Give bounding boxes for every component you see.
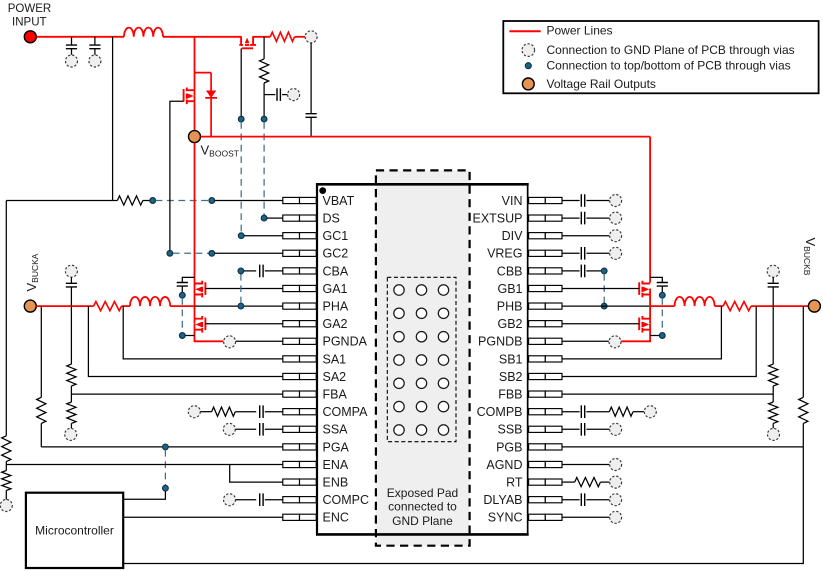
dashed layer-change CBB to PHB — [603, 274, 605, 303]
wire: top rail down at x=112.6 to VBAT branch — [112, 37, 114, 201]
capacitor C-SSB — [581, 423, 584, 436]
wire: divider to GND via — [70, 423, 72, 428]
wire: red vertical GA1 to phase row — [194, 289, 196, 324]
power input node — [24, 31, 36, 43]
capacitor C-OUTB vertical — [772, 277, 774, 283]
svg-text:SA1: SA1 — [323, 352, 347, 366]
svg-text:PHB: PHB — [497, 300, 523, 314]
svg-text:SB1: SB1 — [499, 352, 523, 366]
transistor Q-GA2 low side — [195, 316, 206, 333]
capacitor C-COMPC — [260, 493, 263, 506]
wire: red vertical boost FET to VBOOST node — [194, 95, 196, 130]
svg-text:EXTSUP: EXTSUP — [472, 212, 522, 226]
via dot PGA lower — [163, 485, 169, 491]
wire: buck B resistor to output node — [751, 305, 808, 307]
wire: DLYAB pad to cap — [562, 499, 580, 501]
wire: SSA cap to pad — [265, 428, 283, 430]
svg-text:Voltage Rail Outputs: Voltage Rail Outputs — [547, 77, 656, 91]
via dot CBA — [238, 268, 244, 274]
wire: via to microcontroller — [123, 491, 165, 499]
svg-text:ENB: ENB — [323, 476, 349, 490]
resistor R-FBB2 lower divider — [769, 402, 778, 423]
resistor R-EN1 far-left upper — [2, 436, 11, 462]
svg-text:GA1: GA1 — [323, 282, 348, 296]
resistor R-VBAT series — [113, 200, 118, 202]
wire: RT resistor to via — [600, 481, 609, 483]
microcontroller box — [26, 493, 123, 568]
inductor L-IN on top rail — [124, 28, 163, 37]
legend GND via symbol — [522, 44, 535, 57]
IC body U1 — [317, 184, 528, 534]
wire: GA2 gate to pad — [205, 323, 282, 325]
IC pin pads right bank — [529, 197, 562, 520]
wire: PGB pull-up column — [802, 306, 804, 397]
dashed layer-change wire GC1 column — [240, 122, 242, 233]
dashed layer-change wire on VBAT row — [156, 200, 209, 202]
svg-text:GB1: GB1 — [497, 282, 522, 296]
wire: bootstrap cap B to via dot — [661, 286, 663, 292]
diode D1 boost — [205, 73, 217, 137]
resistor R-COMPA — [212, 407, 236, 416]
via dot bootstrap B top — [659, 292, 665, 298]
GND via AGND — [610, 459, 622, 471]
capacitor C-BOOST vertical — [306, 114, 317, 118]
wire: VIN pad to cap — [562, 200, 580, 202]
wire: SB2 column — [562, 306, 756, 376]
exposed pad dashed region — [376, 170, 470, 545]
wire: DLYAB cap to via — [586, 499, 609, 501]
VBUCKA output node — [24, 300, 36, 312]
GND via EXTSUP — [610, 212, 622, 224]
exposed pad inner via field border — [387, 277, 456, 441]
wire: GB2 gate to pad — [562, 323, 639, 325]
via dot GC1 top — [238, 116, 244, 122]
wire: SYNC pad to via — [562, 516, 609, 518]
wire: VREG cap to via — [586, 252, 609, 254]
resistor R-FBB1 upper divider — [769, 364, 778, 386]
svg-text:VIN: VIN — [502, 194, 523, 208]
wire: phase node to PHA pad — [195, 305, 283, 307]
svg-text:PGB: PGB — [496, 440, 522, 454]
svg-text:ENC: ENC — [323, 511, 349, 525]
legend text lines — [547, 24, 795, 92]
wire: PGNDA via to pad — [236, 340, 283, 342]
svg-text:VBAT: VBAT — [323, 194, 355, 208]
wire: VBOOST rail to right side — [201, 136, 651, 138]
wire: COMPC via to cap — [236, 499, 257, 501]
wire: SSB pad to cap — [562, 428, 580, 430]
GND via below CIN2 — [89, 55, 101, 67]
wire: boost cap to VBOOST rail — [310, 117, 312, 136]
resistor R-RT — [575, 478, 601, 487]
wire: AGND pad to via — [562, 464, 609, 466]
wire: SSB cap to via — [586, 428, 609, 430]
wire: COMPB resistor to via — [633, 411, 644, 413]
dashed layer-change bootstrap A — [181, 298, 183, 333]
svg-text:GC1: GC1 — [323, 229, 349, 243]
wire: CBA cap to pad — [265, 270, 283, 272]
wire: CBA via to cap — [244, 270, 256, 272]
legend box — [503, 21, 818, 93]
wire: far-left column down to ENA divider — [5, 201, 7, 436]
wire: FBB divider column below rail — [772, 306, 774, 364]
capacitor C-DLYAB — [581, 493, 584, 506]
svg-text:CBB: CBB — [497, 264, 523, 278]
wire: via to DS pad — [267, 217, 283, 219]
wire: PGB row to pad — [562, 446, 803, 448]
wire: ENC row from microcontroller to pad — [123, 516, 283, 518]
via dot bootstrap A top — [179, 292, 185, 298]
resistor R-FBA2 lower divider — [67, 402, 76, 423]
svg-text:VBUCKA: VBUCKA — [24, 253, 40, 291]
transistor Q-GB2 low side — [639, 316, 650, 333]
wire: top power rail from input node to inductor — [36, 36, 124, 38]
wire: COMPA resistor to cap — [235, 411, 256, 413]
wire: COMPC cap to pad — [265, 499, 283, 501]
via dot CBB — [601, 268, 607, 274]
GND via DLYAB — [610, 494, 622, 506]
wire: top rail down at x=264.1 to DS resistor — [263, 37, 265, 59]
wire: bootstrap cap B tap from FET drain — [650, 277, 662, 282]
svg-text:SA2: SA2 — [323, 370, 347, 384]
wire: PGA row to pad — [41, 446, 282, 448]
transistor Q-BOOST — [184, 88, 195, 105]
svg-text:RT: RT — [506, 476, 523, 490]
GND via at end of top rail — [305, 31, 317, 43]
GND via DIV — [610, 230, 622, 242]
svg-text:FBA: FBA — [323, 388, 348, 402]
wire: red vertical into boost FET — [194, 73, 196, 96]
wire: DS resistor to cap junction and via dot — [263, 83, 265, 116]
resistor R-LB in buck B output — [723, 302, 751, 311]
wire: top rail resistor to GND via — [295, 36, 306, 38]
wire: GB1 gate to pad — [562, 288, 639, 290]
svg-text:COMPC: COMPC — [323, 493, 370, 507]
svg-text:PGNDA: PGNDA — [323, 335, 368, 349]
svg-text:ENA: ENA — [323, 458, 349, 472]
dashed layer-change CBA to PHA — [240, 274, 242, 303]
svg-text:Microcontroller: Microcontroller — [35, 524, 114, 538]
wire: GND via to boost bypass cap — [310, 43, 312, 114]
inductor L-B buck B — [675, 297, 715, 306]
legend power line sample — [509, 30, 540, 32]
transistor Q-IN pass FET on top rail — [239, 37, 256, 49]
wire: top rail FET to resistor — [252, 36, 270, 38]
dashed layer-change bootstrap B — [661, 298, 663, 333]
wire: FBB divider to GND via — [772, 423, 774, 428]
svg-text:CBA: CBA — [323, 264, 349, 278]
wire: red vertical VBOOST node to GA1 FET — [194, 143, 196, 289]
GND via SSA — [223, 423, 235, 435]
svg-text:VBUCKB: VBUCKB — [802, 238, 818, 276]
svg-text:Power Lines: Power Lines — [547, 24, 613, 38]
via dot VBAT right — [209, 198, 215, 204]
GND via VIN — [610, 195, 622, 207]
svg-text:FBB: FBB — [498, 388, 522, 402]
wire: PGNDB via to pad — [562, 340, 609, 342]
wire: SSA via to cap — [236, 428, 257, 430]
wire: ENA row from far-left divider to pad — [6, 464, 283, 466]
capacitor C-CBA series — [260, 265, 263, 278]
svg-text:SYNC: SYNC — [488, 511, 523, 525]
capacitor CIN1 vertical — [71, 37, 73, 55]
wire: ENA divider junction — [5, 462, 7, 471]
wire: COMPB pad to cap — [562, 411, 580, 413]
wire: divider junction FBB — [772, 386, 774, 402]
capacitor C-COMPB — [581, 405, 584, 418]
wire: red vertical GA2 down to PGNDA corner — [195, 324, 224, 342]
GND via right of C-DS — [288, 89, 300, 101]
wire: COMPB cap to resistor — [586, 411, 609, 413]
wire: buck A resistor to inductor — [122, 305, 131, 307]
wire: FBA divider column below rail — [70, 306, 72, 364]
capacitor C-VREG — [581, 247, 584, 260]
svg-text:SSA: SSA — [323, 423, 349, 437]
wire: bottom bus microcontroller to PGB column — [123, 447, 803, 564]
GND via above output cap A — [65, 265, 77, 277]
inductor L-A buck A — [130, 297, 170, 306]
wire: via to VBAT pad — [215, 200, 283, 202]
wire: FBB row to pad — [562, 393, 773, 395]
svg-text:COMPB: COMPB — [477, 405, 523, 419]
wire: DIV pad to via — [562, 235, 609, 237]
via dot bootstrap A bottom — [179, 333, 185, 339]
GND via below FBA divider — [65, 428, 77, 440]
GND via below FBB divider — [768, 428, 780, 440]
GND via COMPC — [224, 494, 236, 506]
wire: COMPA cap to pad — [265, 411, 283, 413]
svg-text:DS: DS — [323, 212, 340, 226]
dashed layer-change wire PGA to microcontroller — [164, 450, 166, 486]
resistor R-LA in buck A output — [94, 302, 122, 311]
via dot PHB — [601, 303, 607, 309]
resistor R-PGA pull-up — [37, 397, 46, 423]
wire: red vertical GB1 to phase row — [649, 289, 651, 324]
resistor R-TOP on top rail — [270, 32, 294, 41]
IC pin pads left bank — [283, 197, 316, 520]
svg-text:Connection to top/bottom of PC: Connection to top/bottom of PCB through … — [547, 58, 791, 72]
exposed pad thermal vias (3x7 grid) — [394, 285, 449, 435]
capacitor C-SSA — [260, 423, 263, 436]
wire: VREG pad to cap — [562, 252, 580, 254]
GND via below ENA divider — [0, 500, 12, 512]
wire: SA2 column — [88, 306, 282, 376]
IC body border overlay — [317, 184, 528, 534]
wire: bootstrap A via to source column — [185, 335, 194, 337]
wire: buck A inductor to phase node — [170, 305, 194, 307]
svg-text:COMPA: COMPA — [323, 405, 369, 419]
IC pin labels right — [472, 194, 523, 525]
capacitor C-DS to GND via — [264, 94, 275, 96]
legend voltage rail symbol — [522, 78, 534, 90]
svg-text:PHA: PHA — [323, 300, 349, 314]
svg-text:SB2: SB2 — [499, 370, 523, 384]
VBUCKB output node — [808, 300, 820, 312]
wire: RT pad to resistor — [562, 481, 575, 483]
wire: SA1 column — [123, 306, 283, 359]
capacitor C-BSTB — [657, 283, 668, 287]
dashed layer-change wire DS column — [263, 122, 265, 215]
wire: VBUCKA rail to resistor — [36, 305, 93, 307]
wire: PGA column to PGA row — [40, 423, 42, 447]
wire: top rail inductor to pass FET — [163, 36, 242, 38]
GND via above output cap B — [767, 265, 779, 277]
pin 1 indicator dot — [319, 187, 326, 194]
wire: gate of boost FET to GC2 column — [170, 101, 184, 253]
svg-text:Connection to GND Plane of PCB: Connection to GND Plane of PCB through v… — [547, 43, 795, 57]
capacitor C-EXTSUP — [581, 212, 584, 225]
resistor R-DS vertical — [260, 59, 269, 83]
GND via below CIN1 — [66, 55, 78, 67]
wire: gate bar of top pass FET down to GC1 via — [240, 48, 242, 116]
via dot bootstrap B bottom — [659, 333, 665, 339]
GND via PGNDB — [609, 336, 621, 348]
svg-text:PGA: PGA — [323, 440, 350, 454]
wire: via to GC1 pad — [244, 235, 283, 237]
transistor Q-GB1 high side — [639, 281, 650, 298]
wire: bootstrap cap A to via dot — [181, 286, 183, 292]
svg-text:AGND: AGND — [486, 458, 522, 472]
wire: FBA row to pad — [71, 393, 282, 395]
via dot GC1 bottom — [238, 233, 244, 239]
via dot VBAT left — [150, 198, 156, 204]
wire: red branch to diode top — [195, 72, 212, 74]
wire: SB1 column — [562, 306, 721, 359]
GND via RT — [610, 476, 622, 488]
wire: COMPA via to resistor — [201, 411, 212, 413]
wire: divider junction FBA — [70, 386, 72, 402]
resistor R-FBA1 upper divider — [67, 364, 76, 386]
wire: phase B to inductor — [650, 305, 675, 307]
wire: PGA pull-up column — [40, 306, 42, 397]
GND via COMPB — [644, 406, 656, 418]
via dot PGA — [163, 444, 169, 450]
resistor R-COMPB — [609, 407, 633, 416]
via dot PHA — [238, 303, 244, 309]
GND via COMPA — [188, 406, 200, 418]
wire: CBB cap to via dot — [586, 270, 601, 272]
svg-text:DIV: DIV — [502, 229, 524, 243]
svg-text:DLYAB: DLYAB — [483, 493, 522, 507]
wire: bootstrap cap A tap from FET drain — [182, 277, 194, 282]
via dot DS bottom — [261, 215, 267, 221]
capacitor CIN2 vertical — [94, 37, 96, 55]
svg-text:Exposed Padconnected toGND Pla: Exposed Padconnected toGND Plane — [387, 486, 458, 528]
wire: PGB column to PGB row — [802, 423, 804, 447]
GND via VREG — [610, 247, 622, 259]
wire: bootstrap B via to source column — [650, 335, 659, 337]
GND via PGNDA — [224, 336, 236, 348]
wire: VBOOST rail down right side to GB1 FET — [649, 137, 651, 283]
svg-text:GB2: GB2 — [497, 317, 522, 331]
dashed layer-change wire on GC2 row — [173, 252, 209, 254]
capacitor C-BSTA — [177, 283, 188, 287]
legend layer via dot symbol — [525, 63, 531, 69]
wire: via to GC2 pad — [215, 252, 283, 254]
wire: ENB tap from ENA row — [230, 465, 283, 483]
GND via SSB — [610, 423, 622, 435]
capacitor C-CBB series — [581, 265, 584, 278]
svg-text:PGNDB: PGNDB — [478, 335, 522, 349]
via dot DS top — [261, 116, 267, 122]
wire: EXTSUP pad to cap — [562, 217, 580, 219]
resistor R-PGB pull-up — [799, 397, 808, 423]
wire: buck B inductor to resistor — [715, 305, 724, 307]
transistor Q-GA1 high side — [195, 281, 206, 298]
svg-text:VBOOST: VBOOST — [201, 143, 239, 159]
wire: VIN cap to via — [586, 200, 609, 202]
capacitor C-VIN — [581, 194, 584, 207]
wire: CBB pad to cap — [562, 270, 580, 272]
svg-text:GC2: GC2 — [323, 247, 349, 261]
wire: GA1 gate to pad — [205, 288, 282, 290]
wire: phase node B to PHB pad — [562, 305, 650, 307]
via dot GC2 left — [167, 250, 173, 256]
svg-text:GA2: GA2 — [323, 317, 348, 331]
wire: EXTSUP cap to via — [586, 217, 609, 219]
capacitor C-OUTA vertical — [70, 277, 72, 283]
wire: red vertical GB2 down to PGNDB corner — [621, 324, 650, 342]
svg-text:VREG: VREG — [487, 247, 522, 261]
wire: VBAT branch left to far-left column — [6, 200, 112, 202]
wire: red vertical from top rail to boost branch — [194, 37, 196, 73]
svg-text:POWERINPUT: POWERINPUT — [8, 3, 51, 29]
GND via SYNC — [610, 511, 622, 523]
VBOOST node — [189, 131, 201, 143]
via dot GC2 right — [209, 250, 215, 256]
capacitor C-COMPA — [260, 405, 263, 418]
svg-text:SSB: SSB — [497, 423, 522, 437]
resistor R-EN2 far-left lower — [2, 471, 11, 491]
IC pin labels left — [323, 194, 370, 525]
wire: to GND via — [5, 491, 7, 500]
